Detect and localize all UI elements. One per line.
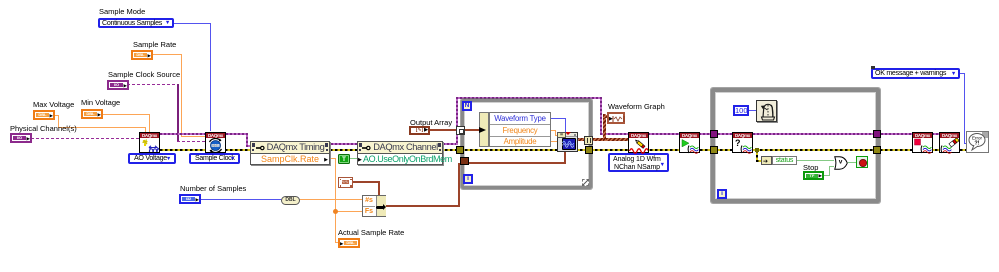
wire: max voltage (orange)	[53, 115, 59, 116]
control: Sample Mode enum	[98, 18, 174, 28]
tunnel: error out (right)	[585, 146, 593, 154]
while loop iteration terminal i	[717, 189, 727, 199]
junction: error wire	[755, 148, 759, 152]
svg-text:?!: ?!	[974, 141, 979, 147]
control: write mode enum (Analog 1D Wfm NChan NSamp)	[608, 153, 669, 172]
label: Max Voltage	[33, 101, 74, 109]
tunnel: error in (left)	[456, 146, 464, 154]
control: Number of Samples I32	[179, 194, 201, 204]
wire: task create->timing (purple)	[160, 133, 205, 135]
label: Stop	[803, 164, 818, 172]
wire: error branch to status (dashed)	[756, 150, 758, 161]
wire: min voltage (orange)	[101, 114, 150, 115]
wire: sample rate (orange)	[153, 54, 182, 55]
node: bundle #s / Fs	[362, 195, 386, 217]
vi icon: DAQmx Write	[628, 132, 649, 153]
structure: for loop	[461, 99, 592, 189]
tunnel: waveform out (auto-indexed)	[584, 136, 593, 145]
wire: waveform array (hatched brown)	[577, 138, 585, 141]
wire: ok message -> error handler (blue)	[956, 73, 965, 74]
tunnel: sample info cluster in (left, brown)	[460, 157, 469, 165]
vi icon: Wait Until Next ms Multiple (metronome)	[756, 100, 777, 122]
for loop iteration terminal i	[463, 174, 473, 184]
tunnel: output array auto-index (in)	[456, 126, 465, 135]
wire: or -> loop condition (green)	[848, 162, 857, 163]
label: Waveform Graph	[608, 103, 665, 111]
wire: stop -> or (green)	[824, 175, 830, 176]
vi icon: DAQmx Create Virtual Channel	[139, 132, 160, 153]
control: Stop boolean	[803, 171, 824, 180]
tunnel: error out (while)	[873, 146, 881, 154]
wire: waveform const -> bundle (brown)	[353, 181, 380, 183]
wire: number of samples (blue)	[201, 199, 281, 200]
wire: output array -> for loop (brown)	[430, 129, 458, 131]
node: unbundle by name (waveform type / frequency / amplitude)	[479, 112, 489, 147]
label glyph: OK message corner	[871, 66, 875, 69]
wire: amplitude (orange)	[551, 141, 559, 142]
vi icon: Simple Error Handler	[966, 131, 989, 153]
control: Sample Clock Source I/O	[107, 80, 129, 90]
control: Min Voltage DBL	[81, 109, 103, 119]
wire: samples as DBL (orange)	[300, 199, 362, 200]
wire: task write->start (purple)	[648, 133, 679, 135]
wire: task loop->stop (purple)	[881, 133, 912, 135]
wire: task property->property (purple dashed)	[331, 143, 357, 145]
constant: waveform attributes	[338, 177, 353, 188]
control: Max Voltage DBL	[33, 110, 55, 120]
node: Or function	[834, 156, 848, 170]
wire: physical channels (magenta dashed)	[31, 138, 139, 139]
tunnel: task out (while, purple)	[873, 130, 881, 138]
label: Sample Clock Source	[108, 71, 180, 79]
wire: bundle out (brown)	[386, 205, 460, 207]
tunnel: error in (while)	[710, 146, 718, 154]
wire: waveform type (blue)	[551, 118, 566, 119]
label: Sample Rate	[133, 41, 176, 49]
vi icon: DAQmx Timing (Sample Clock)	[205, 132, 226, 153]
vi icon: DAQmx Is Task Done	[732, 132, 753, 153]
wire: task start->loop (purple)	[699, 133, 713, 135]
wire: 100 -> wait (blue)	[749, 110, 756, 111]
structure: while loop	[711, 88, 880, 203]
control: AO Voltage enum (under create channel)	[128, 153, 176, 164]
wire: task inside while (purple)	[718, 133, 732, 135]
for loop resize corner	[582, 179, 589, 186]
label: Number of Samples	[180, 185, 246, 193]
node: unbundle status	[761, 156, 772, 165]
terminal: loop condition (stop if true)	[856, 156, 868, 168]
label: Sample Mode	[99, 8, 145, 16]
indicator: Actual Sample Rate DBL	[338, 238, 360, 248]
indicator: Waveform Graph	[607, 112, 625, 124]
control: Output Array (waveform cluster array)	[409, 126, 430, 135]
wire: SampClk.Rate out (orange)	[331, 158, 336, 159]
property node: DAQmx Timing / SampClk.Rate	[250, 141, 330, 165]
constant: 100 (ms wait)	[733, 105, 749, 116]
control: error message type enum	[871, 68, 960, 79]
node: To Double conversion	[281, 196, 300, 205]
wire: T -> property (green)	[349, 158, 357, 159]
label: Physical Channel(s)	[10, 125, 77, 133]
wire: sample mode (blue)	[174, 23, 211, 24]
constant: True (green T)	[338, 154, 350, 164]
wire: status -> or (green)	[797, 160, 834, 161]
control: Physical Channel(s) I/O	[10, 133, 32, 143]
property node: DAQmx Channel / AO.UseOnlyOnBrdMem	[357, 141, 443, 165]
wire: task timing->property node (purple)	[226, 133, 247, 135]
svg-text:0101: 0101	[212, 144, 219, 148]
control: Sample Rate DBL	[131, 50, 153, 60]
vi icon: Basic Function Generator	[557, 132, 578, 152]
wire: frequency (orange)	[551, 130, 556, 131]
label: Min Voltage	[81, 99, 120, 107]
label: Actual Sample Rate	[338, 229, 404, 237]
for loop count terminal N	[462, 101, 472, 111]
wire: unbundle feed (dark red) with arrow	[465, 129, 480, 131]
wire: task stop->clear (purple)	[932, 133, 940, 135]
tunnel: task in (while, purple)	[710, 130, 718, 138]
wire: error cluster (yellow/black dashed)	[160, 149, 966, 151]
control: Sample Clock enum (under timing vi)	[189, 153, 240, 164]
vi icon: DAQmx Start Task	[679, 132, 700, 153]
wire: sample clock source (magenta dashed)	[127, 84, 177, 85]
wire: cluster to function generator (inside loop, brown)	[469, 162, 566, 164]
vi icon: DAQmx Stop Task	[912, 132, 933, 153]
svg-text:v: v	[839, 159, 843, 166]
junction: actual rate node	[333, 209, 338, 214]
vi icon: DAQmx Clear Task	[939, 132, 960, 153]
wire: task channel-> over for loop (purple)	[443, 143, 457, 145]
label: Output Array	[410, 119, 452, 127]
